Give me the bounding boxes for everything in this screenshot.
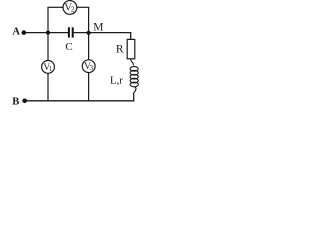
wire: resistor to inductor stub bbox=[131, 59, 134, 66]
voltmeter V2 bbox=[63, 1, 77, 15]
wire: V2 loop top right segment bbox=[77, 6, 89, 8]
svg-text:2: 2 bbox=[71, 6, 75, 14]
svg-text:L,r: L,r bbox=[110, 75, 123, 87]
wire: V1 branch lower bbox=[47, 73, 49, 101]
voltmeter V1 bbox=[42, 61, 55, 74]
voltmeter V3 bbox=[82, 60, 95, 73]
wire: corner down to resistor R bbox=[130, 32, 132, 39]
wire: V3 branch lower bbox=[88, 73, 90, 102]
terminal A dot bbox=[22, 30, 27, 35]
wire: capacitor to corner at right bbox=[74, 32, 132, 34]
wire: V1 branch upper bbox=[47, 33, 49, 61]
wire: V3 branch upper bbox=[88, 33, 90, 60]
wire: bottom-right corner up to inductor bbox=[133, 93, 135, 101]
svg-text:M: M bbox=[93, 22, 103, 34]
svg-text:1: 1 bbox=[49, 65, 53, 73]
svg-text:A: A bbox=[12, 26, 20, 37]
node M junction dot bbox=[87, 31, 91, 35]
wire: V2 loop top left segment bbox=[47, 6, 63, 8]
capacitor C1 plates bbox=[68, 27, 70, 37]
svg-text:B: B bbox=[12, 97, 19, 108]
inductor L,r coil bbox=[130, 67, 138, 93]
wire: main horizontal A to capacitor bbox=[24, 32, 68, 34]
svg-text:C: C bbox=[65, 41, 72, 53]
wire: V2 loop left vertical bbox=[47, 7, 49, 32]
background bbox=[0, 0, 151, 112]
node: left junction dot bbox=[46, 30, 50, 34]
wire: V2 loop right vertical bbox=[88, 7, 90, 32]
wire: bottom horizontal B to right corner bbox=[25, 100, 135, 102]
svg-text:R: R bbox=[116, 43, 124, 55]
resistor R box bbox=[127, 39, 135, 58]
terminal B dot bbox=[22, 99, 27, 104]
svg-text:3: 3 bbox=[90, 64, 94, 72]
